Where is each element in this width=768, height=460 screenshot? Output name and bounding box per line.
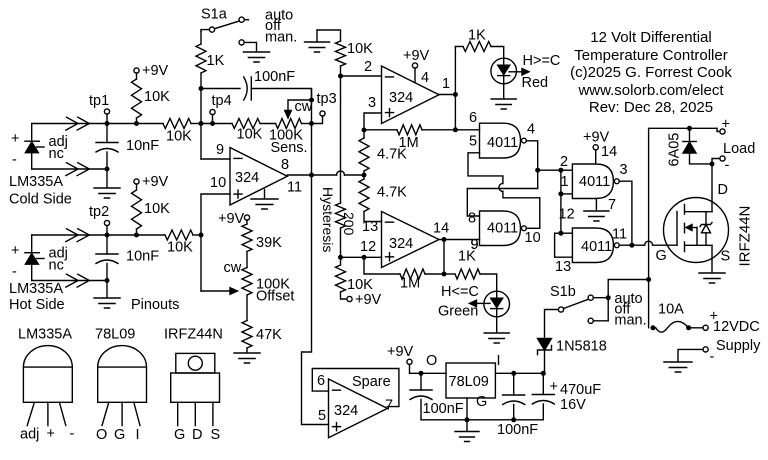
svg-text:470uF: 470uF: [560, 382, 601, 398]
svg-text:-: -: [725, 158, 730, 174]
ground green LED: [484, 317, 509, 343]
svg-text:D: D: [718, 182, 728, 198]
resistor R4 10K hot input: [165, 230, 204, 256]
capacitor C1 10nF: [96, 124, 159, 170]
wire U2d pin12: [561, 232, 573, 234]
label H>=C Red: [522, 53, 561, 91]
op-amp U1d 324 spare: [317, 373, 393, 438]
switch S1a: [201, 7, 257, 52]
NAND gate U2c 4011: [572, 162, 627, 199]
svg-text:IRFZ44N: IRFZ44N: [164, 327, 223, 343]
svg-text:Spare: Spare: [352, 374, 391, 390]
power +9V output: [387, 344, 437, 376]
terminal 12VDC +: [703, 309, 760, 336]
op-amp U1c 324: [360, 212, 449, 268]
svg-text:LM335A: LM335A: [9, 281, 63, 297]
svg-text:LM335A: LM335A: [9, 174, 63, 190]
svg-text:10K: 10K: [347, 41, 373, 57]
svg-text:12VDC: 12VDC: [713, 319, 760, 335]
svg-text:S: S: [721, 249, 731, 265]
ground top of R6: [305, 30, 341, 52]
transistor Q1 IRFZ44N: [664, 198, 729, 263]
resistor R10 39K: [218, 211, 282, 268]
svg-text:12: 12: [559, 207, 575, 223]
svg-text:O: O: [426, 353, 437, 369]
svg-text:Hysteresis: Hysteresis: [320, 187, 336, 252]
wire output row to divider: [312, 171, 367, 178]
ground red LED: [491, 84, 516, 109]
svg-text:Rev: Dec 28, 2025: Rev: Dec 28, 2025: [589, 99, 713, 116]
wire U2a pin6: [455, 129, 479, 131]
svg-text:man.: man.: [614, 312, 646, 328]
power +9V U2c pin14: [583, 130, 617, 165]
LM335A cold sensor D1: [9, 124, 72, 208]
LED D4 Green: [484, 291, 510, 317]
svg-text:10K: 10K: [347, 277, 373, 293]
svg-text:1M: 1M: [400, 276, 420, 292]
svg-text:4.7K: 4.7K: [377, 185, 407, 201]
svg-text:+9V: +9V: [142, 174, 169, 190]
svg-text:7: 7: [608, 197, 616, 213]
svg-text:10nF: 10nF: [126, 249, 159, 265]
svg-text:10: 10: [210, 175, 226, 191]
potentiometer R7 100K Sens: [269, 119, 312, 157]
svg-text:-: -: [70, 426, 75, 442]
capacitor C2 10nF: [96, 235, 159, 281]
wire cold sensor bottom with arrows: [32, 163, 110, 176]
wire U1b pin9: [201, 158, 230, 160]
LM335A hot sensor D2: [9, 235, 68, 313]
svg-text:+9V: +9V: [387, 344, 414, 360]
package 78L09 TO-92: [95, 327, 147, 444]
svg-text:10K: 10K: [144, 201, 170, 217]
svg-text:+: +: [11, 131, 19, 147]
svg-text:10nF: 10nF: [126, 138, 159, 154]
svg-text:100nF: 100nF: [254, 69, 295, 85]
wire latch out to U2c: [538, 154, 573, 173]
wire row to tp4: [201, 123, 232, 125]
package IRFZ44N TO-220: [164, 327, 223, 444]
svg-text:10K: 10K: [144, 89, 170, 105]
svg-text:4011: 4011: [487, 221, 518, 237]
svg-text:14: 14: [601, 144, 617, 160]
wire U2b output pin10: [526, 227, 540, 229]
svg-text:8: 8: [281, 157, 289, 173]
wire U1b pin10: [201, 194, 230, 291]
node tp2: [89, 204, 110, 235]
svg-text:+: +: [550, 379, 558, 395]
wire gate drive with hop: [619, 241, 677, 264]
title block: [570, 29, 732, 116]
wire spare feedback: [312, 369, 399, 407]
wire hot sensor bottom with arrows: [32, 274, 110, 287]
svg-text:+: +: [47, 426, 55, 442]
svg-text:2: 2: [364, 59, 372, 75]
svg-text:G: G: [656, 248, 667, 264]
wire U1b output pin8: [287, 173, 314, 178]
terminal Load +: [717, 117, 730, 135]
svg-text:6: 6: [317, 373, 325, 389]
svg-text:7: 7: [385, 398, 393, 414]
NAND gate U2a 4011: [469, 110, 535, 158]
node tp1: [89, 93, 110, 124]
svg-text:nc: nc: [49, 146, 64, 162]
svg-text:Load: Load: [723, 141, 755, 157]
svg-text:4011: 4011: [487, 135, 518, 151]
wire drain: [711, 164, 713, 212]
terminal Supply -: [703, 338, 761, 365]
svg-text:13: 13: [555, 259, 571, 275]
svg-text:tp1: tp1: [89, 93, 109, 109]
svg-text:100nF: 100nF: [497, 422, 538, 438]
svg-text:11: 11: [612, 227, 627, 243]
svg-text:Temperature Controller: Temperature Controller: [574, 47, 727, 64]
svg-text:I: I: [136, 427, 140, 443]
NAND gate U2d 4011: [572, 227, 627, 263]
wire U2c pin12 column: [558, 194, 574, 236]
svg-text:tp4: tp4: [212, 93, 232, 109]
svg-text:-: -: [710, 349, 715, 365]
label D S: [718, 182, 731, 265]
wiper cw arrow Offset pot: [201, 260, 242, 294]
wire U1a pin3: [364, 95, 382, 130]
svg-text:5: 5: [318, 408, 326, 424]
svg-text:39K: 39K: [256, 235, 282, 251]
terminal Load -: [712, 156, 730, 174]
svg-text:tp3: tp3: [317, 91, 337, 107]
svg-text:Sens.: Sens.: [271, 140, 308, 156]
svg-text:10K: 10K: [237, 127, 263, 143]
resistor R9 1K: [196, 31, 225, 91]
svg-text:+9V: +9V: [403, 48, 430, 64]
ground regulator: [455, 420, 479, 442]
svg-text:47K: 47K: [256, 327, 282, 343]
wire U1c pin13: [364, 212, 382, 222]
resistor R17 1K red LED: [455, 28, 503, 59]
svg-text:4011: 4011: [579, 174, 610, 190]
svg-text:324: 324: [235, 170, 259, 186]
svg-text:IRFZ44N: IRFZ44N: [737, 206, 754, 267]
svg-text:+: +: [722, 117, 730, 133]
wire U1a pin2 row: [341, 59, 382, 76]
svg-text:10: 10: [525, 230, 541, 246]
resistor R6 10K to ground: [336, 41, 374, 79]
resistor R14 10K to +9V: [336, 257, 382, 308]
wire U2d pin13 loop: [555, 233, 573, 275]
svg-text:1K: 1K: [468, 28, 486, 44]
svg-text:4: 4: [421, 70, 429, 86]
svg-text:11: 11: [287, 180, 302, 196]
svg-text:S1b: S1b: [550, 284, 576, 300]
svg-text:1: 1: [442, 76, 450, 92]
svg-text:324: 324: [389, 90, 413, 106]
svg-text:4011: 4011: [581, 239, 612, 255]
ground cold sensor: [94, 169, 120, 198]
svg-text:3: 3: [620, 162, 628, 178]
svg-text:G: G: [114, 427, 125, 443]
svg-text:8: 8: [468, 211, 476, 227]
ground hot sensor: [94, 281, 120, 309]
resistor R2 10K pullup hot: [132, 174, 171, 238]
svg-text:324: 324: [389, 236, 413, 252]
resistor R5 10K feedback: [232, 119, 276, 143]
svg-text:nc: nc: [49, 258, 64, 274]
op-amp U1b 324: [210, 142, 302, 205]
svg-text:+9V: +9V: [142, 63, 169, 79]
svg-text:tp2: tp2: [89, 204, 109, 220]
wire pin14 down: [442, 240, 447, 277]
capacitor C4 100nF output: [410, 373, 464, 420]
svg-text:10K: 10K: [167, 240, 193, 256]
wire pin4 cross to U2b pin8: [467, 189, 537, 217]
svg-text:6: 6: [469, 110, 477, 126]
svg-text:Hot Side: Hot Side: [9, 297, 65, 313]
svg-text:H>=C: H>=C: [523, 53, 561, 69]
label auto off man S1a: [265, 8, 297, 46]
svg-text:1: 1: [561, 174, 569, 190]
capacitor C5 100nF input: [497, 373, 538, 438]
svg-text:12 Volt Differential: 12 Volt Differential: [590, 29, 711, 46]
ground offset chain: [234, 353, 260, 363]
diode D6 1N5818: [538, 339, 607, 374]
svg-text:O: O: [96, 427, 107, 443]
svg-text:cw: cw: [224, 260, 242, 276]
svg-text:Red: Red: [522, 75, 549, 91]
power +9V U1a pin4: [403, 48, 430, 83]
resistor R16 4.7K lower: [359, 175, 407, 212]
svg-text:324: 324: [334, 403, 358, 419]
wire ground rail regulator: [421, 417, 543, 422]
svg-text:4: 4: [527, 122, 535, 138]
switch S1b: [545, 284, 609, 337]
svg-text:78L09: 78L09: [95, 327, 135, 343]
resistor R19 1M upper: [364, 125, 458, 151]
svg-text:+9V: +9V: [355, 292, 382, 308]
label auto off man S1b: [614, 291, 646, 328]
resistor R15 4.7K upper: [359, 128, 407, 176]
wire Sens feedback vertical: [311, 89, 313, 175]
svg-text:-: -: [12, 264, 17, 280]
wire regulator output row: [421, 372, 446, 374]
svg-text:S1a: S1a: [201, 7, 228, 23]
svg-text:D: D: [192, 427, 202, 443]
svg-text:adj: adj: [20, 427, 39, 443]
svg-text:2: 2: [560, 154, 568, 170]
wire regulator input row: [495, 371, 545, 376]
wire pin9 column: [200, 89, 202, 160]
capacitor C3 100nF feedback: [201, 69, 312, 100]
node tp4: [210, 93, 232, 126]
resistor R3 10K cold input: [163, 119, 201, 145]
svg-text:78L09: 78L09: [449, 374, 489, 390]
wire +12V rail: [649, 128, 717, 327]
svg-text:Pinouts: Pinouts: [131, 297, 179, 313]
svg-text:G: G: [476, 394, 487, 410]
svg-text:16V: 16V: [560, 397, 586, 413]
svg-text:6A05: 6A05: [667, 133, 683, 167]
svg-text:LM335A: LM335A: [18, 327, 72, 343]
ground U1b pin11: [251, 190, 278, 210]
ground U2c pin7: [584, 197, 616, 221]
svg-text:Cold Side: Cold Side: [9, 192, 72, 208]
diode D5 6A05 flyback: [667, 126, 715, 167]
svg-text:5: 5: [469, 134, 477, 150]
svg-text:14: 14: [433, 221, 449, 237]
svg-text:100nF: 100nF: [423, 401, 464, 417]
svg-text:Green: Green: [438, 304, 478, 320]
wiper cw arrow Sens pot: [285, 98, 314, 119]
svg-text:1M: 1M: [399, 135, 419, 151]
svg-text:10K: 10K: [166, 129, 192, 145]
wire hot row: [107, 234, 165, 236]
svg-text:S: S: [211, 427, 221, 443]
wire U1c pin12 row: [341, 256, 382, 258]
node tp3: [309, 91, 337, 126]
resistor R12 47K: [242, 321, 282, 353]
resistor R13 200 hysteresis: [336, 76, 358, 260]
svg-text:13: 13: [362, 219, 378, 235]
LED D3 Red: [491, 58, 517, 84]
svg-text:10A: 10A: [658, 302, 684, 318]
ground S1a man contact: [244, 52, 270, 62]
resistor R1 10K pullup cold: [132, 63, 171, 126]
resistor R18 1K green LED: [444, 249, 497, 292]
wire spare pin5 from U1b out: [302, 175, 329, 425]
wire hot sensor top with arrows: [32, 229, 110, 242]
svg-text:H<=C: H<=C: [441, 284, 479, 300]
wire cold sensor top with arrows: [32, 117, 110, 130]
svg-text:-: -: [12, 152, 17, 168]
svg-text:www.solorb.com/elect: www.solorb.com/elect: [577, 82, 724, 99]
wire U2c output pin3 down: [619, 181, 634, 248]
arrow LED red indicator: [509, 69, 529, 75]
svg-text:I: I: [497, 353, 501, 369]
capacitor C6 470uF: [532, 373, 601, 420]
svg-text:12: 12: [360, 239, 376, 255]
regulator U3 78L09: [446, 353, 501, 410]
svg-text:3: 3: [368, 95, 376, 111]
svg-text:man.: man.: [265, 29, 297, 45]
wire U1c output pin14: [439, 237, 480, 253]
package LM335A TO-92: [18, 327, 75, 443]
svg-text:9: 9: [216, 142, 224, 158]
wire U2a output pin4: [526, 141, 540, 189]
svg-text:(c)2025 G. Forrest Cook: (c)2025 G. Forrest Cook: [570, 64, 732, 81]
wire U2b out to U2a pin5 with hop: [468, 153, 540, 229]
arrow LED green indicator: [470, 300, 491, 306]
wire U1a output pin1: [439, 92, 458, 97]
wire regulator ground pin: [466, 398, 468, 420]
fuse F1 10A: [651, 302, 704, 333]
svg-text:G: G: [174, 427, 185, 443]
potentiometer R11 100K Offset: [242, 268, 294, 321]
NAND gate U2b 4011: [468, 211, 541, 254]
ground source: [699, 245, 725, 283]
op-amp U1a 324: [382, 66, 451, 124]
svg-text:9: 9: [471, 237, 479, 253]
svg-text:200: 200: [341, 212, 357, 236]
resistor R20 1M lower: [362, 255, 445, 292]
svg-text:Offset: Offset: [256, 289, 294, 305]
wire U2c pin1: [558, 170, 572, 196]
label H<=C Green: [438, 284, 479, 320]
svg-text:+9V: +9V: [218, 211, 245, 227]
wire pin1 node vertical: [454, 47, 456, 130]
svg-text:+: +: [11, 243, 19, 259]
node pin9 column junction: [199, 121, 204, 126]
svg-text:Supply: Supply: [716, 338, 761, 354]
svg-text:1K: 1K: [207, 53, 225, 69]
ground supply: [664, 349, 703, 372]
svg-text:1N5818: 1N5818: [556, 339, 607, 355]
wire cold row: [107, 123, 163, 125]
wire S1b feed: [606, 277, 651, 321]
